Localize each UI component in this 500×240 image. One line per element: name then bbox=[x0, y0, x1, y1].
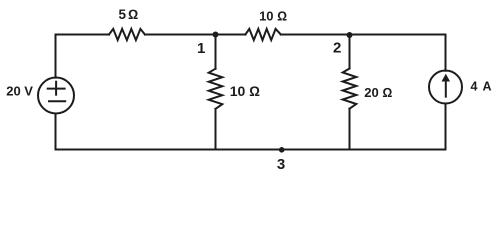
svg-text:10 Ω: 10 Ω bbox=[230, 83, 260, 99]
resistor R2 10Ω (horizontal zigzag) bbox=[245, 29, 280, 40]
plus sign inside V1 bbox=[48, 88, 65, 90]
node 2 junction dot bbox=[347, 32, 353, 38]
svg-text:1: 1 bbox=[197, 40, 205, 57]
svg-text:20 Ω: 20 Ω bbox=[364, 85, 392, 100]
resistor R3 10Ω (vertical zigzag) bbox=[209, 69, 223, 109]
wire from vertical 10Ω down to bottom wire bbox=[215, 109, 217, 150]
wire from voltage source top up to top-left corner and right to resistor 5Ω bbox=[56, 35, 110, 78]
wire from node 2 down to resistor 20Ω bbox=[349, 35, 351, 69]
wire from node 1 down to vertical resistor 10Ω bbox=[215, 35, 217, 69]
svg-text:10 Ω: 10 Ω bbox=[259, 9, 287, 24]
svg-text:20 V: 20 V bbox=[6, 84, 33, 99]
voltage source V1 circle bbox=[38, 78, 74, 114]
minus sign inside V1 bbox=[49, 100, 65, 102]
current source I1 circle bbox=[429, 71, 462, 104]
svg-text:4 A: 4 A bbox=[471, 80, 493, 94]
node 3 junction dot bbox=[279, 147, 285, 153]
arrow inside I1 bbox=[445, 78, 447, 97]
node 1 junction dot bbox=[213, 32, 219, 38]
wire from 10Ω to node 2 bbox=[281, 34, 350, 36]
wire from node 1 to resistor 10Ω horizontal bbox=[216, 34, 246, 36]
wire from node 2 to top-right corner and down to current source bbox=[350, 35, 446, 71]
arrowhead of current source bbox=[442, 74, 451, 82]
wire from current source bottom to bottom-right corner bbox=[445, 104, 447, 150]
wire from V1 bottom down to bottom-left corner bbox=[55, 114, 57, 150]
resistor R4 20Ω (vertical zigzag) bbox=[343, 69, 357, 109]
bottom wire (node 3 net) bbox=[56, 149, 446, 151]
svg-text:2: 2 bbox=[333, 40, 341, 57]
resistor R1 5Ω (horizontal zigzag) bbox=[109, 29, 145, 40]
wire from 5Ω to node 1 bbox=[145, 34, 216, 36]
wire from 20Ω down to bottom wire bbox=[349, 109, 351, 150]
svg-text:3: 3 bbox=[277, 156, 285, 173]
svg-text:5Ω: 5Ω bbox=[119, 7, 141, 22]
